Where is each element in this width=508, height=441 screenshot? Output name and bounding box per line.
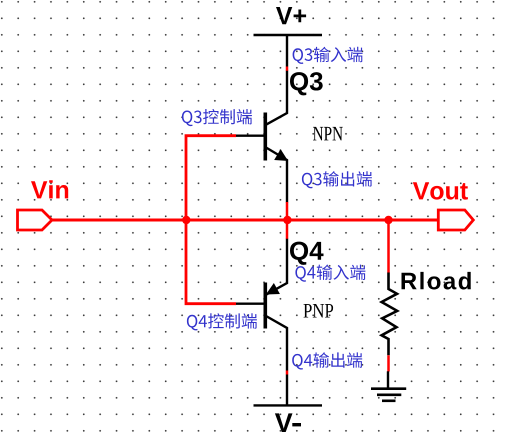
wire Q4 to V- (red net segment) [286, 371, 289, 375]
label NPN [313, 127, 343, 140]
ground [371, 371, 406, 401]
junction node C (Rload tap) [384, 216, 392, 224]
wire Q3 base pin [236, 134, 264, 136]
label Q4 control terminal (Q4控制端) [187, 313, 257, 330]
label V- [275, 413, 301, 432]
wire Q4 collector pin [266, 316, 287, 371]
port Vout [438, 210, 473, 230]
transistor Q3 emitter with arrow [266, 148, 287, 203]
power rail V- [254, 375, 323, 406]
wire Q4 base pin [236, 303, 264, 305]
label Vout [413, 182, 468, 199]
port Vin [18, 210, 53, 230]
wire Q3 collector pin [266, 71, 287, 125]
wire Q4 emitter pin [266, 239, 287, 295]
wire Rload top (red) [387, 220, 390, 273]
junction node A (Vin branch) [182, 216, 190, 224]
transistor Q3 base bar [263, 113, 267, 161]
label PNP [304, 304, 334, 318]
wire main horizontal net Vin to Vout [52, 219, 438, 222]
label Q3 output terminal (Q3输出端) [302, 171, 372, 188]
label Q4 input terminal (Q4输入端) [295, 265, 365, 282]
wire Q3 emitter net (red) [286, 202, 289, 220]
label Q3 control terminal (Q3控制端) [182, 109, 252, 126]
label Q4 [290, 242, 324, 265]
label Q3 [290, 72, 323, 95]
resistor Rload [382, 273, 398, 356]
label V+ [276, 7, 306, 24]
wire Rload bottom (red) [387, 355, 390, 371]
wire V+ to Q3 collector (red net segment) [286, 67, 289, 72]
transistor Q4 base bar [263, 283, 267, 329]
junction node B (output) [283, 216, 291, 224]
label Vin [31, 180, 68, 198]
label Q4 output terminal (Q4输出端) [292, 352, 362, 369]
wire Q4 emitter net (red) [286, 220, 289, 239]
power rail V+ [254, 35, 323, 67]
label Rload [402, 272, 471, 290]
wire left branch (red): vertical + base stubs [186, 136, 236, 304]
label Q3 input terminal (Q3输入端) [293, 47, 363, 64]
